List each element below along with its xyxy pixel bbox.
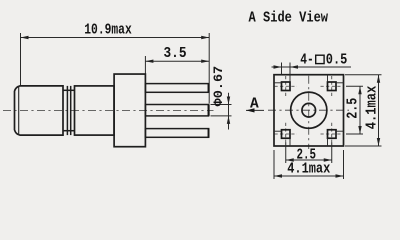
svg-text:A: A: [250, 97, 259, 113]
groove / neck between cap and body: [63, 86, 75, 135]
dimension 2.5 right side: [346, 86, 363, 134]
top mounting leg: [145, 84, 208, 93]
svg-text:4-: 4-: [300, 53, 314, 69]
pin tip bold end: [208, 105, 210, 116]
dimension phi 0.67: [211, 93, 232, 130]
svg-text:4.1max: 4.1max: [365, 86, 381, 130]
center contact pin: [145, 105, 208, 116]
post BL notch lines: [274, 131, 290, 146]
post TR notch lines: [328, 75, 344, 83]
post TL centerline cross: [275, 76, 298, 98]
section arrow A (view direction): [246, 109, 264, 111]
main body cylinder: [75, 86, 115, 135]
wire centerline of side view: [3, 109, 214, 111]
post TL: [282, 82, 291, 91]
dimension 4-square0.5: [272, 63, 352, 75]
dimension 10.9max: [21, 33, 210, 104]
post TR: [328, 82, 337, 91]
post BL: [282, 130, 291, 139]
bottom mounting leg: [145, 129, 208, 138]
dimension 2.5 bottom: [286, 143, 332, 164]
dimension 4.1max bottom: [274, 150, 344, 179]
svg-text:10.9max: 10.9max: [84, 23, 132, 39]
post BL centerline cross: [275, 123, 298, 145]
svg-text:0.5: 0.5: [326, 53, 348, 69]
post TL notch lines: [274, 75, 290, 83]
node centerline cross of square body: [268, 76, 349, 149]
svg-text:Φ0.67: Φ0.67: [211, 66, 226, 107]
outer circle: [291, 92, 327, 128]
inner hole circle: [302, 103, 316, 117]
body cap (coupling nut): [15, 86, 64, 135]
flange (square body seen edge-on): [114, 74, 145, 147]
svg-text:4.1max: 4.1max: [287, 161, 330, 177]
square flange outline: [274, 75, 344, 146]
cap chamfer line: [18, 86, 20, 134]
post TR centerline cross: [321, 76, 344, 98]
svg-text:2.5: 2.5: [346, 98, 362, 119]
svg-text:3.5: 3.5: [164, 46, 187, 62]
post BR: [328, 130, 337, 139]
post BR centerline cross: [321, 123, 344, 145]
svg-text:A Side View: A Side View: [249, 10, 329, 27]
post BR notch lines: [328, 131, 344, 146]
dimension 3.5: [145, 56, 209, 74]
dimension 4.1max right side: [345, 75, 382, 146]
